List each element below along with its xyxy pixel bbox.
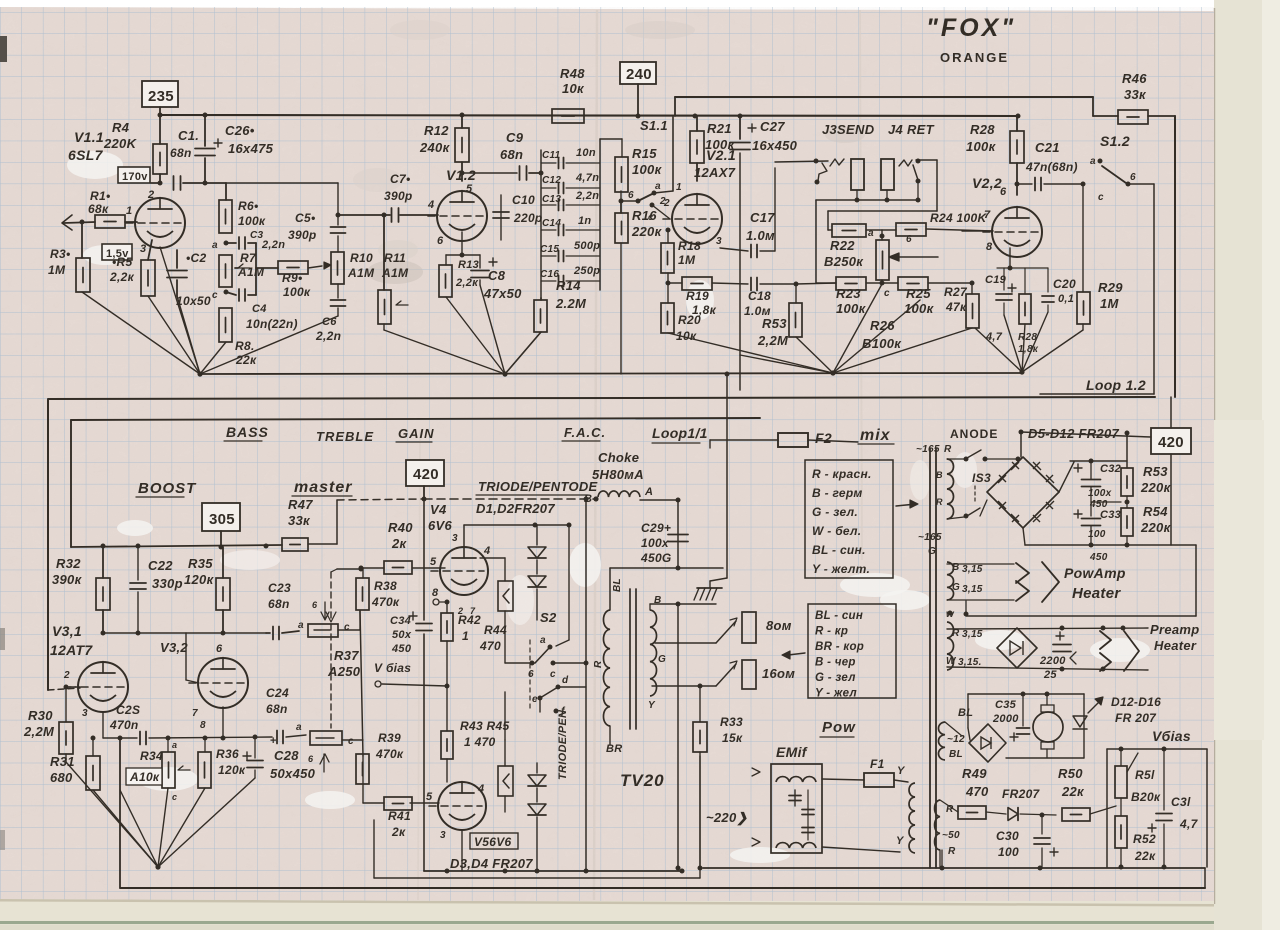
resistor R38 xyxy=(356,578,369,610)
capacitor C8 xyxy=(479,255,481,268)
svg-text:3,15: 3,15 xyxy=(962,564,983,575)
svg-text:e: e xyxy=(532,694,538,705)
preamp rectifier bridge xyxy=(997,628,1037,668)
wire grid bus V1.2 xyxy=(338,214,390,216)
svg-text:V56V6: V56V6 xyxy=(474,835,512,849)
svg-text:C21: C21 xyxy=(1035,140,1060,155)
svg-text:10n: 10n xyxy=(576,147,596,159)
svg-text:22к: 22к xyxy=(1134,849,1156,863)
svg-text:390к: 390к xyxy=(52,572,83,587)
transformer TV20 secondary coil xyxy=(650,610,657,696)
svg-text:R23: R23 xyxy=(836,286,861,301)
svg-text:D1,D2FR207: D1,D2FR207 xyxy=(476,501,555,516)
svg-text:100к: 100к xyxy=(283,285,311,299)
wire ret to R22 row xyxy=(936,160,938,211)
svg-text:R52: R52 xyxy=(1133,832,1156,846)
svg-text:C29+: C29+ xyxy=(641,521,671,535)
svg-text:68n: 68n xyxy=(170,146,192,160)
svg-text:2,2к: 2,2к xyxy=(109,270,135,284)
svg-text:0,1: 0,1 xyxy=(1058,293,1074,305)
svg-text:12AT7: 12AT7 xyxy=(50,642,93,658)
resistor R54 psu xyxy=(1121,508,1133,536)
svg-text:R37: R37 xyxy=(334,648,359,663)
svg-text:2,2M: 2,2M xyxy=(23,724,55,739)
svg-text:6: 6 xyxy=(308,754,314,764)
svg-text:4: 4 xyxy=(483,545,490,557)
svg-text:R29: R29 xyxy=(1098,280,1123,295)
resistor R20 xyxy=(661,303,674,333)
svg-text:R53: R53 xyxy=(762,316,787,331)
svg-text:C2S: C2S xyxy=(116,703,140,717)
long bottom rail xyxy=(120,887,1205,889)
svg-text:~165: ~165 xyxy=(918,532,942,543)
capacitor C12 xyxy=(541,187,556,189)
node box 305 xyxy=(202,503,240,531)
svg-text:2,2n: 2,2n xyxy=(315,329,341,343)
bias bridge top rail xyxy=(968,693,1084,695)
svg-text:R46: R46 xyxy=(1122,71,1147,86)
preamp heater chevrons xyxy=(1100,631,1111,649)
capacitor C21 xyxy=(1015,182,1020,187)
svg-text:R38: R38 xyxy=(374,579,397,593)
svg-text:G: G xyxy=(658,654,666,665)
dashed grid feed V3.1 xyxy=(48,688,80,690)
svg-text:C35: C35 xyxy=(995,699,1017,711)
svg-text:100x: 100x xyxy=(641,536,670,550)
svg-text:470к: 470к xyxy=(371,595,400,609)
svg-text:~220❯: ~220❯ xyxy=(706,810,748,826)
svg-text:470: 470 xyxy=(965,784,989,799)
svg-text:25: 25 xyxy=(1043,669,1057,681)
legend arrow 1 xyxy=(896,504,916,506)
svg-text:10к: 10к xyxy=(562,81,585,96)
svg-text:R36: R36 xyxy=(216,747,239,761)
capacitor C22 xyxy=(137,546,139,580)
svg-text:C24: C24 xyxy=(266,686,289,700)
svg-text:B - чер: B - чер xyxy=(815,657,856,669)
wire R16 to ground bus xyxy=(620,243,622,374)
resistor R13 xyxy=(461,232,463,255)
svg-text:C34: C34 xyxy=(390,615,411,627)
svg-text:6: 6 xyxy=(1130,172,1136,183)
svg-text:GAIN: GAIN xyxy=(398,426,435,441)
tube V2.2 xyxy=(992,207,1042,257)
svg-text:R48: R48 xyxy=(560,66,585,81)
transformer TV20 core xyxy=(629,589,631,729)
input arrow xyxy=(62,215,72,230)
svg-text:3,15.: 3,15. xyxy=(958,657,982,668)
resistor R9 xyxy=(256,267,278,269)
svg-text:4,7: 4,7 xyxy=(985,331,1003,343)
svg-text:F1: F1 xyxy=(870,757,885,771)
svg-text:R35: R35 xyxy=(188,556,213,571)
svg-text:Vбias: Vбias xyxy=(1152,728,1191,744)
svg-text:250p: 250p xyxy=(573,265,600,277)
tube V1.1 triode xyxy=(135,198,185,248)
wire ground fan V1.1 xyxy=(82,292,200,374)
svg-text:c: c xyxy=(348,736,354,747)
svg-text:C26•: C26• xyxy=(225,123,255,138)
diode D2 xyxy=(536,560,538,574)
left edge marks xyxy=(0,36,7,62)
svg-text:V4: V4 xyxy=(430,502,447,517)
svg-text:33к: 33к xyxy=(288,513,311,528)
svg-text:G: G xyxy=(928,546,936,557)
PT core xyxy=(929,448,931,868)
svg-text:Y - желт.: Y - желт. xyxy=(812,562,870,576)
svg-text:4: 4 xyxy=(427,199,434,211)
svg-text:Heater: Heater xyxy=(1072,585,1121,602)
svg-text:Loop1/1: Loop1/1 xyxy=(652,425,708,441)
capacitor C3 xyxy=(226,242,236,244)
svg-text:220к: 220к xyxy=(1140,480,1172,495)
svg-text:R16: R16 xyxy=(632,208,657,223)
resistor R29 xyxy=(1082,184,1084,292)
wire ground fan V2.2 xyxy=(1004,315,1022,372)
switch S3 top xyxy=(964,457,969,462)
svg-text:R4: R4 xyxy=(112,120,130,135)
svg-text:C10: C10 xyxy=(512,193,535,207)
ground star node 3 xyxy=(830,370,835,375)
svg-text:Preamp: Preamp xyxy=(1150,622,1200,637)
capacitor C31 xyxy=(1163,749,1165,810)
resistor R19 xyxy=(667,273,669,283)
svg-text:68n: 68n xyxy=(500,147,523,162)
svg-text:R3•: R3• xyxy=(50,247,70,261)
loop box right side xyxy=(1153,184,1155,394)
svg-text:C23: C23 xyxy=(268,581,291,595)
paper bottom margin strip xyxy=(0,901,1214,930)
motor M xyxy=(1046,694,1048,705)
svg-text:6SL7: 6SL7 xyxy=(68,147,104,163)
svg-text:2: 2 xyxy=(659,196,666,207)
svg-text:4,7: 4,7 xyxy=(1179,817,1199,831)
svg-text:R33: R33 xyxy=(720,715,743,729)
svg-text:R54: R54 xyxy=(1143,504,1168,519)
svg-text:c: c xyxy=(1098,192,1104,203)
svg-text:R7: R7 xyxy=(240,251,257,265)
svg-text:220к: 220к xyxy=(631,224,663,239)
capacitor C13 xyxy=(541,204,556,206)
tube V3.2 xyxy=(198,658,248,708)
svg-text:3: 3 xyxy=(140,243,146,255)
diode box R45 xyxy=(498,766,513,796)
svg-text:2000: 2000 xyxy=(992,713,1019,725)
svg-text:16x450: 16x450 xyxy=(752,138,798,153)
potentiometer R10 xyxy=(331,252,344,284)
svg-text:FR207: FR207 xyxy=(1002,787,1041,801)
ground star node 1 xyxy=(197,371,202,376)
master dashed feed xyxy=(337,499,424,500)
wiper feed R9 to R10 xyxy=(308,266,322,268)
resistor R43 xyxy=(441,731,453,759)
svg-text:R22: R22 xyxy=(830,238,855,253)
svg-text:12AX7: 12AX7 xyxy=(694,165,736,180)
ground star node 2 xyxy=(502,371,507,376)
label V5 6V6 xyxy=(470,833,518,849)
svg-text:R53: R53 xyxy=(1143,464,1168,479)
svg-text:1M: 1M xyxy=(48,263,66,277)
wire ground fan V3 xyxy=(66,762,158,867)
wire send sleeve drop xyxy=(815,200,817,283)
top section bottom border xyxy=(48,397,1155,690)
node c xyxy=(224,290,229,295)
svg-text:A250: A250 xyxy=(327,664,361,679)
svg-text:1M: 1M xyxy=(1100,296,1120,311)
wire F1 to primary xyxy=(894,780,908,782)
svg-text:EMif: EMif xyxy=(776,744,808,760)
svg-text:68n: 68n xyxy=(268,597,290,611)
svg-text:Heater: Heater xyxy=(1154,638,1197,653)
capacitor C1 xyxy=(173,176,175,190)
svg-text:R24 100K: R24 100K xyxy=(930,211,987,225)
svg-text:Y: Y xyxy=(648,700,656,711)
resistor R23 xyxy=(836,277,866,290)
svg-text:50x: 50x xyxy=(392,629,412,641)
transformer TV20 primary feed xyxy=(676,566,681,571)
svg-text:5H80мA: 5H80мA xyxy=(592,467,644,482)
svg-text:a: a xyxy=(540,635,546,646)
svg-text:V2,2: V2,2 xyxy=(972,175,1002,191)
grid wire V4 xyxy=(413,567,445,569)
resistor R8 xyxy=(219,308,232,342)
svg-text:BL: BL xyxy=(612,578,623,592)
svg-text:Choke: Choke xyxy=(598,450,639,465)
cathode V4 xyxy=(433,599,439,605)
svg-text:50x450: 50x450 xyxy=(270,766,316,781)
switch S1.1 feed xyxy=(672,117,674,191)
wire loop drop to speaker common xyxy=(726,440,728,578)
tube V3.1 xyxy=(78,662,128,712)
svg-text:3,15: 3,15 xyxy=(962,629,983,640)
capacitor C9 xyxy=(519,166,521,180)
capacitor C20 xyxy=(1047,268,1049,292)
svg-text:1 470: 1 470 xyxy=(464,735,496,749)
ground star node 4 xyxy=(1019,369,1024,374)
tube V5 xyxy=(438,782,486,830)
svg-text:a: a xyxy=(172,740,177,750)
svg-text:100к: 100к xyxy=(966,139,997,154)
PT primary coil xyxy=(909,783,915,853)
psu mid rail 545 xyxy=(1025,544,1196,546)
svg-text:R1•: R1• xyxy=(90,189,110,203)
svg-text:BL - син.: BL - син. xyxy=(812,543,866,557)
svg-text:2к: 2к xyxy=(391,825,406,839)
indicator diode xyxy=(1079,714,1081,758)
svg-text:1.0м: 1.0м xyxy=(746,228,775,243)
svg-text:68n: 68n xyxy=(266,702,288,716)
resistor R5 xyxy=(148,240,152,260)
svg-text:1,8к: 1,8к xyxy=(1018,344,1039,355)
svg-text:420: 420 xyxy=(1158,434,1184,451)
resistor R2x 1.8k xyxy=(1019,294,1031,324)
legend box colors 2 xyxy=(808,604,896,698)
legend box colors 1 xyxy=(805,460,893,578)
capacitor C18 xyxy=(750,278,752,291)
potentiometer R11 xyxy=(383,215,385,290)
svg-text:S1.2: S1.2 xyxy=(1100,133,1130,149)
svg-text:2.2M: 2.2M xyxy=(555,296,587,311)
svg-text:C1.: C1. xyxy=(178,128,199,143)
svg-text:W: W xyxy=(946,656,957,667)
wire choke A to B+ node xyxy=(640,499,678,501)
transformer TV20 primary coil xyxy=(603,610,610,726)
loop right rail xyxy=(1174,116,1176,397)
svg-text:3: 3 xyxy=(452,533,458,544)
svg-text:B: B xyxy=(936,470,943,480)
svg-text:c: c xyxy=(172,792,177,802)
svg-text:R27: R27 xyxy=(944,285,968,299)
cathode net V2.2 xyxy=(1009,248,1011,268)
svg-text:R10: R10 xyxy=(350,251,373,265)
svg-text:4: 4 xyxy=(477,783,484,795)
plate rail V4 xyxy=(464,524,569,526)
svg-text:G - зел.: G - зел. xyxy=(812,505,858,519)
wire 235 to bus xyxy=(159,107,161,144)
switch S1.1 c contact xyxy=(650,203,655,208)
svg-text:R20: R20 xyxy=(678,313,701,327)
wire 420 box top xyxy=(1170,397,1172,428)
node box 240 xyxy=(620,62,656,84)
svg-text:Y - жел: Y - жел xyxy=(815,688,857,700)
bridge output diagonal xyxy=(1059,462,1074,492)
svg-text:TRIODE/PENTODE: TRIODE/PENTODE xyxy=(478,479,598,494)
svg-text:220к: 220к xyxy=(1140,520,1172,535)
svg-text:a: a xyxy=(296,722,302,733)
paper stains and whiteout patches xyxy=(67,151,123,179)
svg-text:220p: 220p xyxy=(513,211,543,225)
psu bottom rail xyxy=(703,867,1205,869)
svg-text:R41: R41 xyxy=(388,809,411,823)
svg-text:G: G xyxy=(952,582,960,593)
svg-text:R32: R32 xyxy=(56,556,81,571)
svg-text:R39: R39 xyxy=(378,731,401,745)
capacitor C29 xyxy=(677,500,679,568)
svg-text:6: 6 xyxy=(906,234,912,245)
resistor R16 xyxy=(615,213,628,243)
svg-text:BR: BR xyxy=(606,743,623,755)
svg-text:3,15: 3,15 xyxy=(962,584,983,595)
diode D1 xyxy=(536,525,538,545)
resistor R31 xyxy=(86,756,100,790)
capacitor C2 xyxy=(176,250,178,268)
resistor R15 xyxy=(615,157,628,192)
resistor R18 xyxy=(667,230,669,243)
svg-text:d: d xyxy=(562,675,569,686)
svg-text:R: R xyxy=(936,497,943,507)
svg-text:R47: R47 xyxy=(288,497,313,512)
node box 420 amp xyxy=(406,460,444,486)
svg-text:B20к: B20к xyxy=(1131,790,1161,804)
capacitor 2200u xyxy=(1037,647,1048,649)
resistor R53 psu xyxy=(1121,468,1133,496)
svg-text:•C2: •C2 xyxy=(186,251,206,265)
svg-text:240: 240 xyxy=(626,66,652,83)
svg-text:6: 6 xyxy=(216,643,223,655)
svg-text:PowAmp: PowAmp xyxy=(1064,565,1126,581)
bias box right edge xyxy=(1206,749,1208,867)
svg-text:C19: C19 xyxy=(985,274,1007,286)
amp bottom rail xyxy=(424,870,682,872)
boost bus xyxy=(71,545,282,547)
svg-text:C20: C20 xyxy=(1053,277,1076,291)
wire grid V2.1 xyxy=(666,228,671,233)
svg-text:C5•: C5• xyxy=(295,211,315,225)
svg-text:1: 1 xyxy=(676,182,682,193)
svg-text:6V6: 6V6 xyxy=(428,518,453,533)
svg-text:C12: C12 xyxy=(542,175,561,186)
ret tip switch xyxy=(899,160,912,166)
svg-text:8: 8 xyxy=(432,587,439,599)
svg-text:6: 6 xyxy=(437,235,444,247)
svg-text:450: 450 xyxy=(1089,552,1108,563)
svg-text:S1.1: S1.1 xyxy=(640,118,668,133)
svg-text:C30: C30 xyxy=(996,829,1019,843)
tube V2.1 12AX7 xyxy=(672,194,722,244)
resistor R39 xyxy=(356,754,369,784)
grid bus V3 xyxy=(103,632,266,634)
svg-text:390p: 390p xyxy=(384,189,413,203)
svg-text:C22: C22 xyxy=(148,558,173,573)
svg-text:A: A xyxy=(644,486,653,498)
svg-text:TRIODE/PEN: TRIODE/PEN xyxy=(557,709,569,780)
master riser xyxy=(336,500,338,544)
svg-text:47n(68n): 47n(68n) xyxy=(1025,160,1078,174)
svg-text:R9•: R9• xyxy=(282,271,302,285)
svg-text:ANODE: ANODE xyxy=(950,427,998,441)
switch S3 bottom xyxy=(947,517,964,519)
svg-text:680: 680 xyxy=(50,770,73,785)
potentiometer R24 chain xyxy=(896,223,926,236)
resistor R3 xyxy=(81,222,83,258)
potentiometer R7 xyxy=(219,255,232,287)
svg-text:D12-D16: D12-D16 xyxy=(1111,695,1161,709)
svg-text:470n: 470n xyxy=(109,718,139,732)
svg-text:1: 1 xyxy=(126,205,132,217)
node box 420 psu xyxy=(1151,428,1191,454)
svg-text:R13: R13 xyxy=(458,259,479,271)
svg-text:R6•: R6• xyxy=(238,199,258,213)
svg-text:6: 6 xyxy=(628,190,634,201)
svg-text:2,2n: 2,2n xyxy=(261,239,285,251)
svg-text:420: 420 xyxy=(413,466,439,483)
wire plate to C9 xyxy=(462,172,517,174)
speaker jack 8ohm xyxy=(742,612,756,643)
svg-text:47к: 47к xyxy=(945,300,967,314)
svg-text:235: 235 xyxy=(148,88,174,105)
capacitor C16 xyxy=(541,280,556,282)
bridge top riser xyxy=(1020,432,1022,457)
wire ground fan V1.2 xyxy=(384,330,505,374)
legend arrow 2 xyxy=(782,651,790,659)
svg-text:V3,2: V3,2 xyxy=(160,640,188,655)
svg-text:BOOST: BOOST xyxy=(138,480,197,497)
resistor R33 xyxy=(699,686,701,722)
svg-text:G - зел: G - зел xyxy=(815,672,856,684)
svg-text:a: a xyxy=(212,240,218,251)
svg-text:R49: R49 xyxy=(962,766,987,781)
svg-text:C14: C14 xyxy=(542,218,561,229)
svg-text:C3l: C3l xyxy=(1171,795,1191,809)
speaker ground hatch xyxy=(697,587,722,589)
svg-text:3: 3 xyxy=(716,236,722,247)
svg-text:c: c xyxy=(212,290,218,301)
svg-text:mix: mix xyxy=(860,427,891,444)
svg-text:100к: 100к xyxy=(238,214,266,228)
resistor R21 xyxy=(690,131,704,163)
svg-text:R: R xyxy=(948,846,956,857)
ground bus top section xyxy=(200,373,1022,374)
